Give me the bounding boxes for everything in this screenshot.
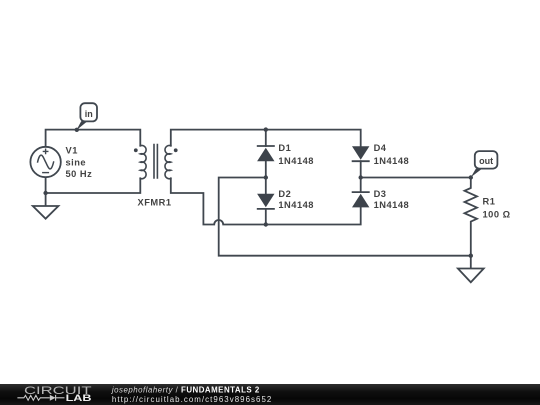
svg-text:in: in	[85, 109, 93, 119]
secondary winding	[165, 145, 171, 178]
diode D4	[352, 146, 370, 161]
wire: right middle node to R1 top	[361, 177, 471, 179]
svg-text:D2: D2	[278, 189, 291, 199]
voltage source V1	[30, 147, 60, 177]
svg-text:V1: V1	[66, 146, 78, 156]
wire: XFMR1 secondary top to bridge top rail (D1, D4 tops)	[171, 130, 361, 147]
diode D3	[352, 192, 370, 207]
net flag "out"	[471, 151, 498, 177]
node: left middle (D1/D2 anodes)	[264, 175, 268, 179]
node: right middle (D4/D3 cathodes)	[359, 175, 363, 179]
primary winding	[140, 145, 146, 178]
svg-text:josephoflaherty / FUNDAMENTALS: josephoflaherty / FUNDAMENTALS 2	[111, 386, 260, 395]
node: V1 ground junction	[43, 191, 47, 195]
svg-text:http://circuitlab.com/ct963v89: http://circuitlab.com/ct963v896s652	[112, 395, 272, 404]
svg-text:50 Hz: 50 Hz	[66, 169, 93, 179]
wire: D4 cathode to D3 cathode (right middle node)	[360, 161, 362, 192]
svg-text:D1: D1	[278, 143, 291, 153]
footer logo resistor-diode glyph	[17, 395, 64, 401]
phase dot secondary	[174, 148, 178, 152]
wire: V1 top to XFMR1 primary top	[46, 130, 141, 147]
phase dot primary	[134, 148, 138, 152]
wire: D1 anode to D2 anode (left middle node)	[265, 161, 267, 193]
svg-text:D3: D3	[374, 189, 387, 199]
svg-text:100 Ω: 100 Ω	[483, 209, 511, 219]
wire: V1 bottom to XFMR1 primary bottom	[46, 177, 141, 193]
node: bottom AC rail / D2	[264, 222, 268, 226]
svg-text:R1: R1	[483, 197, 496, 207]
transformer XFMR1	[134, 145, 178, 179]
core	[154, 145, 157, 179]
node: R1 top / out	[469, 175, 473, 179]
svg-text:sine: sine	[66, 157, 87, 167]
svg-text:D4: D4	[374, 143, 387, 153]
svg-text:1N4148: 1N4148	[374, 200, 410, 210]
diode D1	[257, 146, 275, 161]
svg-text:LAB: LAB	[66, 393, 92, 403]
node: R1 bottom / ground	[469, 254, 473, 258]
net flag "in"	[76, 103, 97, 130]
wire: left middle node to ground rail (down and along bottom to R1 bottom)	[219, 178, 471, 256]
svg-text:out: out	[479, 156, 493, 166]
footer bar	[0, 384, 540, 405]
svg-text:1N4148: 1N4148	[278, 156, 314, 166]
ground (R1)	[458, 256, 484, 283]
node: in flag junction	[75, 128, 79, 132]
svg-text:1N4148: 1N4148	[374, 156, 410, 166]
ground (V1)	[33, 193, 59, 219]
svg-text:1N4148: 1N4148	[278, 200, 314, 210]
wire: D1 top stub	[265, 130, 267, 146]
svg-text:XFMR1: XFMR1	[138, 198, 172, 208]
node: bridge top rail / D1	[264, 127, 268, 131]
wire: D2 cathode to bottom AC rail	[265, 209, 267, 225]
wire: XFMR1 secondary bottom to bottom AC rail with hop, to D3 anode	[171, 178, 361, 224]
diode D2	[257, 194, 275, 209]
resistor R1	[465, 178, 478, 256]
